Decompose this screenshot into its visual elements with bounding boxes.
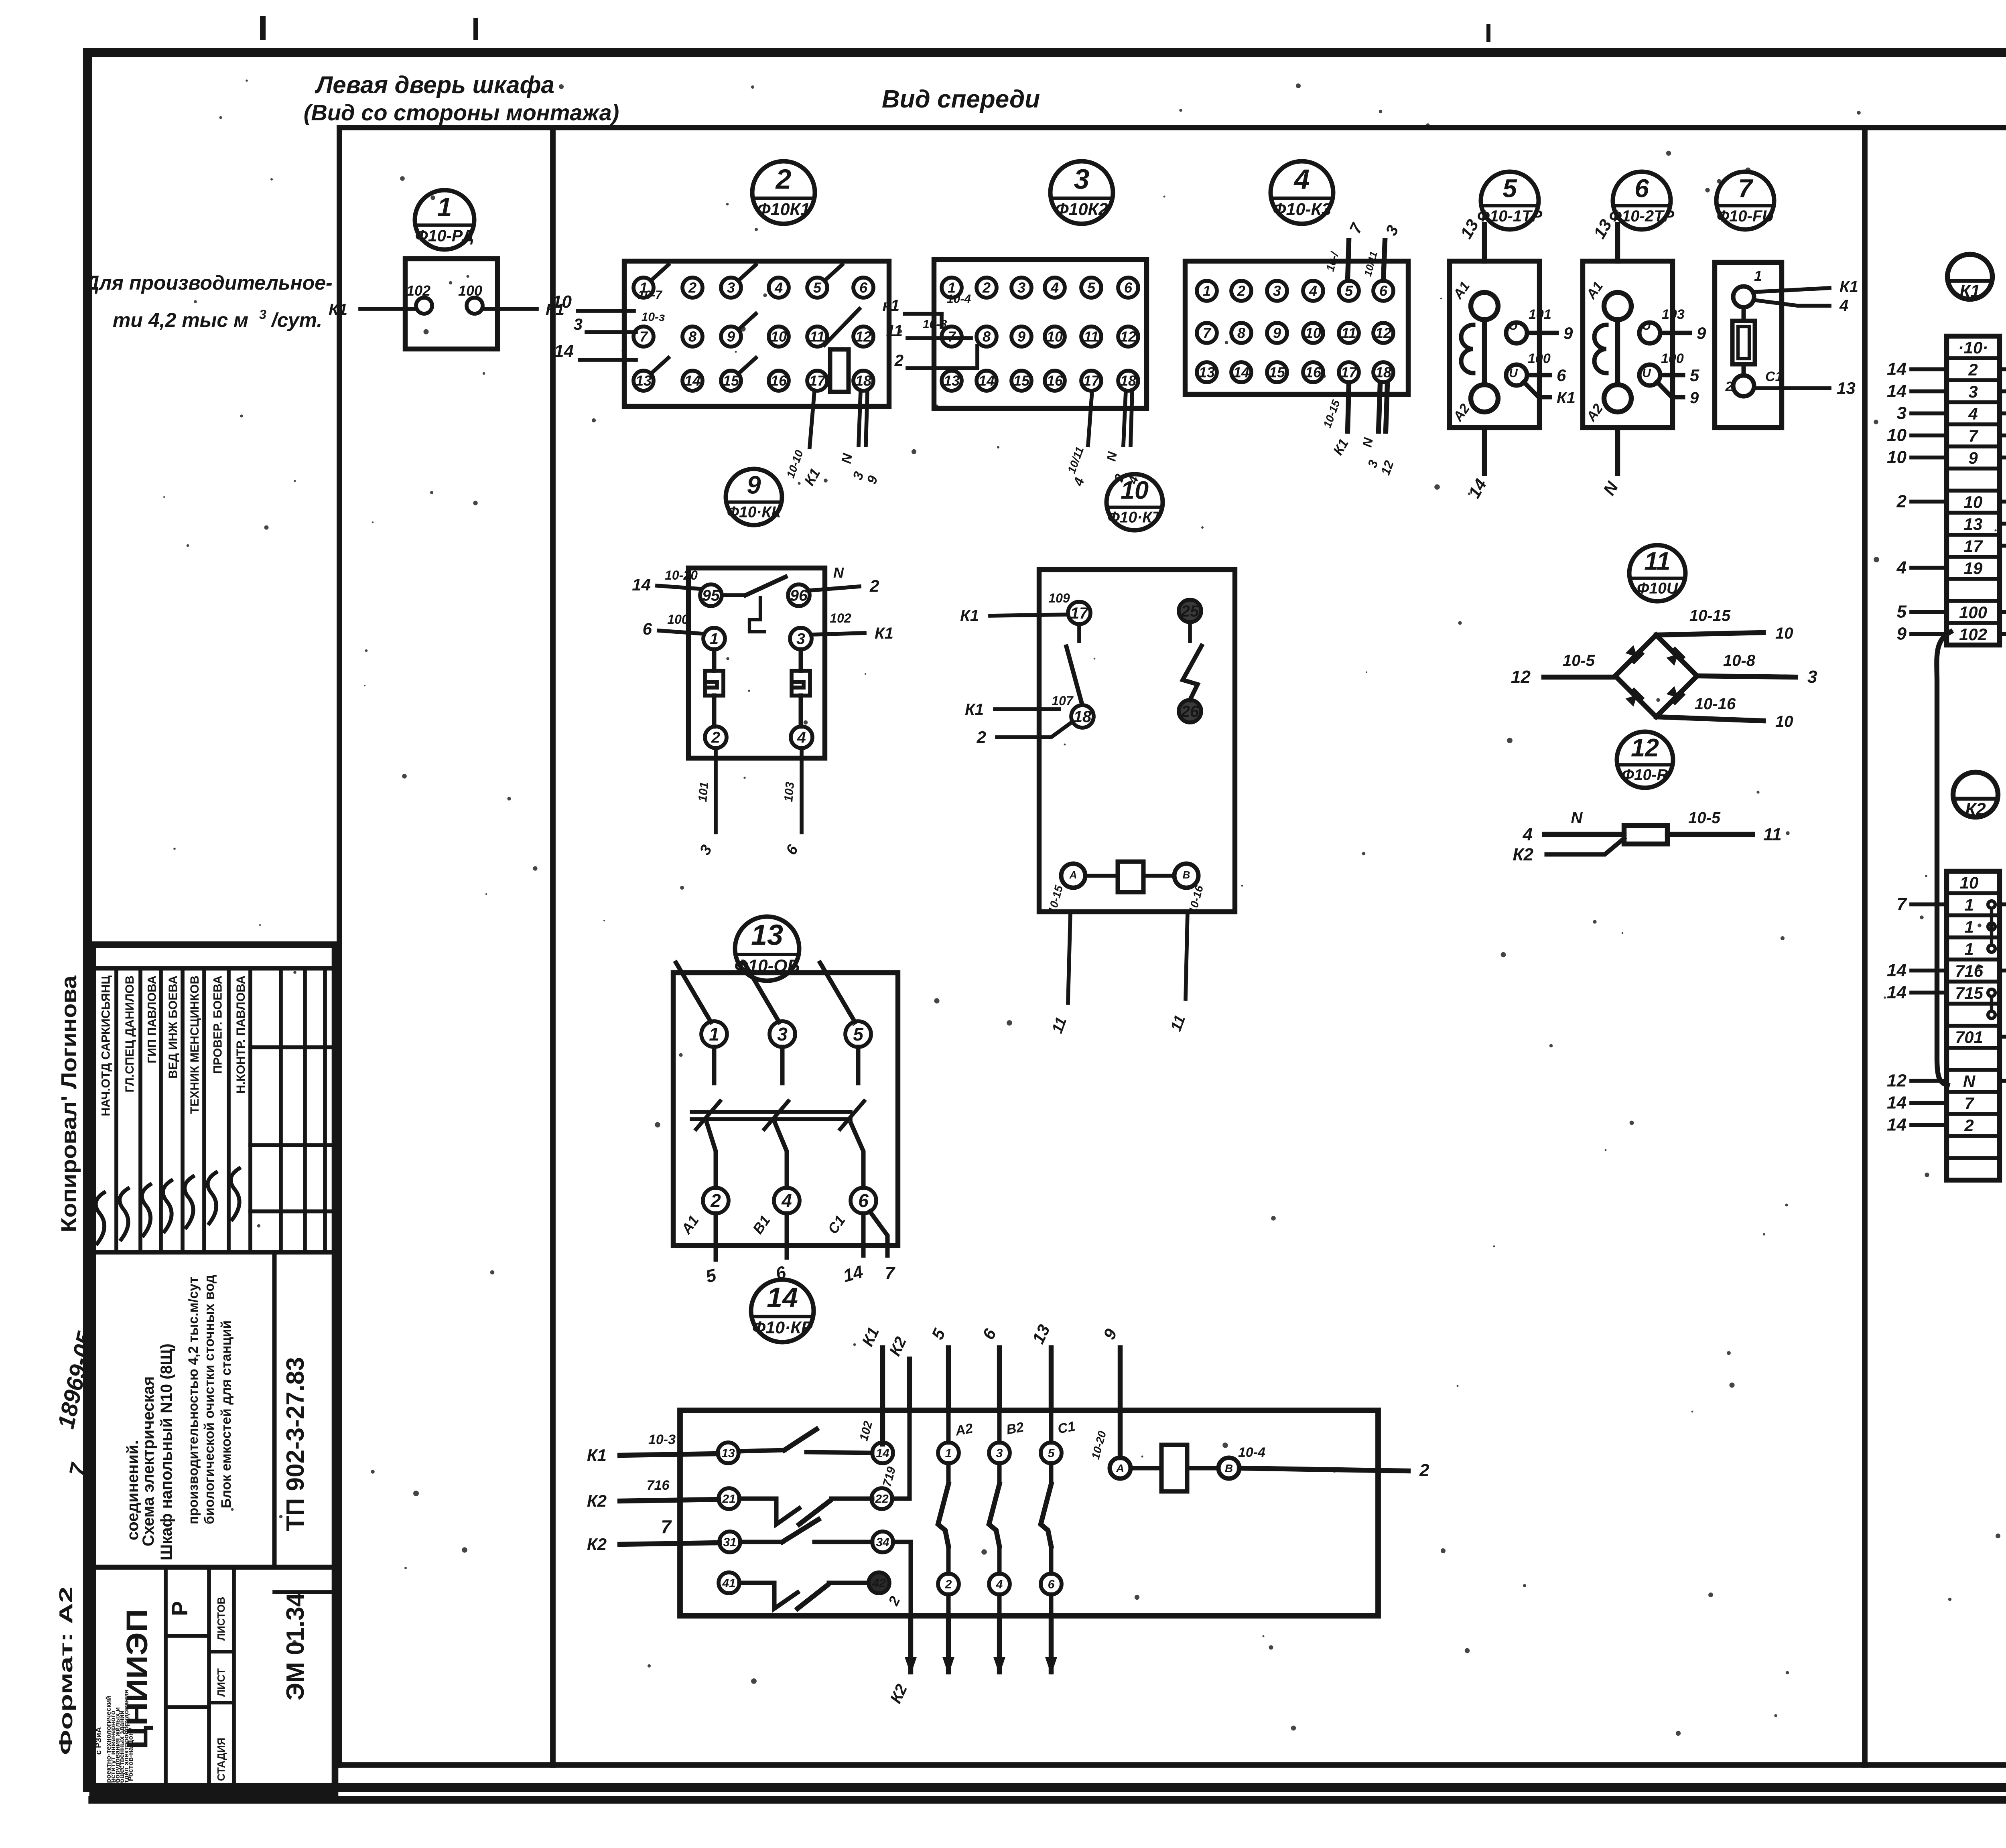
svg-text:ПРОВЕР. БОЕВА: ПРОВЕР. БОЕВА — [211, 976, 225, 1074]
svg-text:10: 10 — [1775, 713, 1793, 730]
svg-text:12: 12 — [1887, 1071, 1907, 1091]
svg-text:Ф10К1: Ф10К1 — [757, 200, 810, 219]
svg-text:5: 5 — [1502, 174, 1517, 203]
svg-text:Ф10·КК: Ф10·КК — [727, 503, 782, 521]
svg-text:11: 11 — [1341, 325, 1356, 341]
svg-text:7: 7 — [1964, 1094, 1974, 1113]
svg-text:9: 9 — [727, 329, 735, 345]
svg-text:(Вид со стороны монтажа): (Вид со стороны монтажа) — [304, 100, 619, 125]
svg-text:13: 13 — [1199, 364, 1215, 381]
svg-text:Ф10·КТ: Ф10·КТ — [1107, 509, 1163, 526]
svg-text:1: 1 — [437, 192, 452, 222]
svg-text:19: 19 — [1964, 559, 1983, 578]
svg-text:4: 4 — [1896, 558, 1907, 578]
svg-text:9: 9 — [747, 471, 761, 499]
svg-text:13: 13 — [944, 373, 960, 389]
svg-text:3: 3 — [796, 631, 805, 648]
svg-text:716: 716 — [1955, 962, 1984, 980]
svg-text:14: 14 — [1887, 1115, 1907, 1135]
svg-text:2: 2 — [1237, 283, 1245, 299]
svg-text:ЛИСТ: ЛИСТ — [215, 1668, 227, 1697]
svg-text:715: 715 — [1955, 984, 1984, 1002]
svg-text:716: 716 — [647, 1478, 670, 1493]
svg-text:1: 1 — [1964, 917, 1974, 936]
svg-text:701: 701 — [1955, 1028, 1983, 1047]
svg-text:ГИП ПАВЛОВА: ГИП ПАВЛОВА — [146, 976, 159, 1063]
svg-text:ЭМ 01.34: ЭМ 01.34 — [282, 1592, 309, 1700]
svg-text:К2: К2 — [1965, 799, 1986, 819]
svg-text:3: 3 — [259, 307, 266, 322]
svg-text:10: 10 — [1960, 873, 1979, 892]
svg-text:В2: В2 — [1005, 1420, 1025, 1438]
svg-text:12: 12 — [1120, 329, 1136, 345]
svg-text:17: 17 — [809, 373, 826, 389]
svg-text:6: 6 — [1048, 1578, 1055, 1591]
svg-text:10: 10 — [1964, 493, 1983, 511]
svg-text:16: 16 — [1047, 373, 1063, 389]
svg-text:9: 9 — [1273, 325, 1281, 341]
svg-text:9: 9 — [1697, 324, 1706, 343]
svg-text:ЛИСТОВ: ЛИСТОВ — [215, 1597, 227, 1641]
svg-text:10-5: 10-5 — [1563, 652, 1595, 669]
svg-text:А2: А2 — [954, 1421, 974, 1439]
svg-text:Левая дверь шкафа: Левая дверь шкафа — [315, 71, 554, 98]
svg-text:Ф10·КР: Ф10·КР — [752, 1318, 813, 1337]
svg-text:42: 42 — [872, 1577, 886, 1590]
svg-text:95: 95 — [702, 587, 720, 605]
svg-text:15: 15 — [1269, 364, 1285, 381]
svg-text:5: 5 — [1048, 1447, 1055, 1460]
svg-text:8: 8 — [983, 329, 991, 345]
svg-text:21: 21 — [722, 1493, 735, 1506]
svg-text:11: 11 — [1644, 548, 1670, 576]
svg-text:1: 1 — [1203, 283, 1211, 299]
svg-text:U: U — [1509, 367, 1518, 380]
svg-text:10-20: 10-20 — [665, 568, 698, 582]
svg-text:7: 7 — [885, 1263, 896, 1283]
svg-text:10-16: 10-16 — [1695, 695, 1736, 713]
svg-text:3: 3 — [1017, 280, 1025, 296]
svg-text:Копировал' Логинова: Копировал' Логинова — [57, 975, 81, 1232]
svg-text:г. Ростов-на-Дону: г. Ростов-на-Дону — [127, 1728, 134, 1787]
svg-text:·10·: ·10· — [1958, 338, 1988, 357]
svg-text:17: 17 — [1964, 537, 1983, 556]
svg-text:9: 9 — [1968, 448, 1978, 467]
svg-text:18: 18 — [855, 373, 871, 389]
svg-text:9: 9 — [1897, 624, 1907, 644]
svg-text:13: 13 — [751, 919, 783, 951]
svg-text:N: N — [1571, 809, 1583, 827]
svg-text:6: 6 — [859, 280, 868, 296]
svg-text:9: 9 — [1017, 329, 1025, 345]
svg-text:4: 4 — [797, 729, 806, 747]
svg-text:С1: С1 — [1056, 1419, 1076, 1437]
svg-text:К2: К2 — [587, 1535, 607, 1554]
svg-text:9: 9 — [1690, 389, 1699, 407]
svg-text:10: 10 — [1887, 448, 1907, 467]
svg-text:10: 10 — [1887, 426, 1907, 445]
svg-text:14: 14 — [632, 575, 651, 594]
svg-text:2: 2 — [688, 280, 696, 296]
svg-text:18: 18 — [1375, 364, 1391, 381]
svg-text:2: 2 — [982, 280, 991, 296]
svg-text:102: 102 — [1959, 625, 1987, 644]
svg-text:Н.КОНТР. ПАВЛОВА: Н.КОНТР. ПАВЛОВА — [234, 976, 248, 1093]
svg-text:Блок емкостей для станций: Блок емкостей для станций — [219, 1321, 234, 1508]
svg-text:14: 14 — [1233, 364, 1249, 381]
svg-text:Шкаф напольный N10 (8Щ): Шкаф напольный N10 (8Щ) — [158, 1343, 175, 1560]
svg-text:К2: К2 — [1513, 845, 1533, 864]
svg-text:U: U — [1642, 367, 1651, 380]
svg-text:3: 3 — [1968, 382, 1978, 401]
svg-text:14: 14 — [554, 341, 574, 361]
svg-text:14: 14 — [1887, 381, 1907, 401]
svg-text:14: 14 — [1887, 359, 1907, 379]
svg-text:2: 2 — [775, 164, 792, 195]
svg-text:5: 5 — [853, 1024, 864, 1045]
svg-text:Ф10-1ТР: Ф10-1ТР — [1477, 207, 1543, 225]
svg-text:Ф10К2: Ф10К2 — [1055, 200, 1108, 219]
svg-text:100: 100 — [667, 612, 689, 627]
svg-text:4: 4 — [1839, 297, 1848, 314]
svg-text:2: 2 — [945, 1578, 952, 1591]
svg-text:14: 14 — [979, 373, 995, 389]
svg-text:Для производительное-: Для производительное- — [83, 272, 332, 294]
svg-text:100: 100 — [1959, 603, 1987, 622]
svg-text:10: 10 — [1047, 329, 1063, 345]
svg-text:17: 17 — [1070, 605, 1089, 622]
svg-text:2: 2 — [894, 352, 904, 369]
svg-text:41: 41 — [722, 1577, 735, 1590]
svg-text:К1: К1 — [875, 625, 893, 642]
svg-text:2: 2 — [711, 729, 720, 747]
svg-text:К1: К1 — [965, 701, 984, 718]
svg-text:ТП 902-3-27.83: ТП 902-3-27.83 — [282, 1357, 309, 1531]
svg-text:12: 12 — [1631, 734, 1659, 762]
svg-text:1: 1 — [1964, 895, 1974, 914]
svg-text:К1: К1 — [587, 1446, 607, 1465]
svg-text:3: 3 — [1273, 283, 1281, 299]
svg-text:18: 18 — [1074, 708, 1092, 726]
svg-text:соединений.: соединений. — [124, 1440, 142, 1540]
svg-text:6: 6 — [643, 619, 652, 638]
svg-text:ТЕХНИК МЕНСЦИНКОВ: ТЕХНИК МЕНСЦИНКОВ — [188, 976, 201, 1114]
svg-text:10-4: 10-4 — [947, 292, 971, 306]
svg-text:К1: К1 — [1557, 389, 1576, 407]
svg-text:В: В — [1225, 1462, 1233, 1475]
svg-text:3: 3 — [1897, 404, 1907, 423]
svg-text:100: 100 — [458, 282, 482, 299]
svg-text:Схема электрическая: Схема электрическая — [140, 1376, 157, 1546]
svg-text:16: 16 — [1305, 364, 1322, 381]
svg-text:100: 100 — [1528, 351, 1551, 366]
svg-text:11: 11 — [1084, 329, 1098, 345]
svg-text:Ф10U: Ф10U — [1637, 580, 1678, 597]
svg-text:7: 7 — [1738, 174, 1754, 203]
svg-text:14: 14 — [1887, 961, 1907, 980]
svg-text:13: 13 — [1837, 379, 1856, 398]
svg-text:12: 12 — [1375, 325, 1391, 341]
svg-text:4: 4 — [996, 1578, 1003, 1591]
svg-text:100: 100 — [1661, 351, 1684, 366]
svg-text:7: 7 — [640, 329, 648, 345]
svg-text:4: 4 — [774, 280, 783, 296]
svg-text:12: 12 — [1511, 667, 1531, 687]
svg-text:СТАДИЯ: СТАДИЯ — [215, 1738, 227, 1781]
svg-text:/сут.: /сут. — [271, 309, 323, 331]
svg-text:НАЧ.ОТД САРКИСЬЯНЦ: НАЧ.ОТД САРКИСЬЯНЦ — [99, 976, 113, 1116]
svg-text:96: 96 — [790, 587, 808, 605]
svg-text:А: А — [1116, 1462, 1124, 1475]
svg-text:3: 3 — [1074, 164, 1090, 195]
svg-text:102: 102 — [830, 611, 851, 625]
svg-text:101: 101 — [696, 781, 711, 803]
svg-text:Р: Р — [167, 1601, 192, 1616]
svg-text:2: 2 — [977, 728, 986, 747]
svg-text:N: N — [833, 564, 844, 581]
svg-text:8: 8 — [1237, 325, 1245, 341]
svg-text:Ф10-FU: Ф10-FU — [1717, 207, 1774, 225]
svg-text:25: 25 — [1181, 602, 1199, 620]
svg-text:14: 14 — [767, 1282, 798, 1313]
svg-text:U: U — [1642, 319, 1651, 333]
svg-text:1: 1 — [945, 1447, 952, 1460]
svg-text:14: 14 — [1887, 983, 1907, 1002]
svg-text:биологической очистки сточных: биологической очистки сточных вод — [202, 1275, 217, 1524]
svg-text:6: 6 — [1124, 280, 1133, 296]
svg-text:13: 13 — [1964, 515, 1983, 534]
svg-text:5: 5 — [1690, 366, 1699, 385]
svg-text:10: 10 — [1305, 325, 1321, 341]
svg-text:В: В — [1183, 869, 1190, 881]
svg-text:4: 4 — [781, 1190, 792, 1211]
svg-text:Ф10-РД: Ф10-РД — [415, 226, 474, 245]
svg-text:10: 10 — [552, 292, 572, 312]
svg-text:3: 3 — [996, 1447, 1003, 1460]
svg-text:6: 6 — [1634, 174, 1649, 203]
svg-text:производительностью 4,2 тыс.м/: производительностью 4,2 тыс.м/сут — [186, 1277, 201, 1524]
svg-text:Формат: А2: Формат: А2 — [55, 1586, 76, 1755]
svg-text:8: 8 — [688, 329, 696, 345]
svg-text:12: 12 — [855, 329, 871, 345]
svg-text:N: N — [1963, 1072, 1976, 1091]
svg-text:18: 18 — [1120, 373, 1136, 389]
svg-text:7: 7 — [1897, 895, 1908, 914]
svg-text:10-з: 10-з — [642, 310, 665, 324]
svg-text:101: 101 — [1529, 307, 1551, 322]
svg-text:10-8: 10-8 — [1723, 652, 1756, 669]
svg-text:1: 1 — [1964, 939, 1974, 958]
svg-text:26: 26 — [1181, 703, 1199, 720]
svg-text:U: U — [1509, 319, 1518, 333]
svg-text:к1: к1 — [882, 297, 899, 314]
svg-text:13: 13 — [721, 1447, 735, 1460]
svg-text:16: 16 — [771, 373, 787, 389]
svg-text:К2: К2 — [587, 1491, 607, 1510]
svg-text:17: 17 — [1083, 373, 1100, 389]
svg-text:1: 1 — [1754, 268, 1762, 284]
svg-text:Вид спереди: Вид спереди — [882, 85, 1040, 113]
svg-text:2: 2 — [1968, 360, 1978, 379]
svg-text:2: 2 — [710, 1190, 721, 1211]
svg-text:103: 103 — [1662, 307, 1685, 322]
svg-text:7: 7 — [1968, 426, 1978, 445]
svg-text:10: 10 — [1775, 625, 1793, 642]
svg-text:с РЗиА: с РЗиА — [94, 1727, 103, 1755]
svg-text:10-15: 10-15 — [1689, 607, 1731, 625]
svg-text:7: 7 — [661, 1516, 672, 1537]
svg-text:5: 5 — [1345, 283, 1353, 299]
svg-text:ти 4,2 тыс м: ти 4,2 тыс м — [113, 309, 248, 331]
svg-text:34: 34 — [876, 1536, 889, 1549]
svg-text:14: 14 — [1887, 1093, 1907, 1113]
svg-text:К1: К1 — [960, 607, 979, 625]
svg-text:14: 14 — [876, 1447, 889, 1460]
svg-text:6: 6 — [1379, 283, 1388, 299]
svg-text:14: 14 — [684, 373, 700, 389]
svg-text:15: 15 — [1013, 373, 1030, 389]
svg-text:К1: К1 — [329, 301, 347, 318]
svg-text:4: 4 — [1309, 283, 1317, 299]
svg-text:2: 2 — [1896, 492, 1907, 511]
svg-text:К1: К1 — [1840, 278, 1858, 296]
svg-text:1: 1 — [709, 1024, 719, 1045]
svg-text:102: 102 — [406, 282, 430, 299]
svg-text:2: 2 — [1725, 379, 1733, 394]
svg-text:4: 4 — [1968, 404, 1978, 423]
svg-text:31: 31 — [723, 1536, 736, 1549]
svg-text:3: 3 — [1807, 667, 1817, 687]
svg-text:109: 109 — [1048, 591, 1070, 605]
svg-text:7: 7 — [1203, 325, 1212, 341]
svg-text:10: 10 — [771, 329, 787, 345]
svg-text:3: 3 — [574, 316, 583, 333]
svg-text:11: 11 — [810, 329, 824, 345]
svg-text:10-4: 10-4 — [1238, 1445, 1265, 1460]
svg-text:4: 4 — [1050, 280, 1059, 296]
svg-text:5: 5 — [1087, 280, 1096, 296]
svg-text:11: 11 — [1763, 825, 1782, 844]
svg-text:107: 107 — [1052, 694, 1074, 708]
svg-text:10: 10 — [1121, 477, 1149, 505]
svg-text:1: 1 — [710, 631, 719, 648]
svg-text:ВЕД ИНЖ БОЕВА: ВЕД ИНЖ БОЕВА — [166, 976, 180, 1079]
svg-text:2: 2 — [1419, 1461, 1429, 1480]
svg-text:6: 6 — [1557, 366, 1566, 385]
svg-text:10-7: 10-7 — [638, 288, 662, 302]
svg-text:9: 9 — [1563, 324, 1573, 343]
svg-text:4: 4 — [1293, 164, 1310, 195]
svg-text:10-3: 10-3 — [648, 1432, 676, 1447]
svg-text:22: 22 — [875, 1493, 889, 1506]
svg-text:5: 5 — [1897, 602, 1907, 622]
svg-text:К1: К1 — [1959, 281, 1980, 301]
svg-text:103: 103 — [782, 781, 797, 802]
svg-text:6: 6 — [858, 1190, 869, 1211]
svg-text:3: 3 — [727, 280, 735, 296]
svg-text:17: 17 — [1341, 364, 1358, 381]
svg-text:3: 3 — [777, 1024, 788, 1045]
svg-text:10-5: 10-5 — [1688, 809, 1721, 827]
svg-text:2: 2 — [869, 576, 879, 595]
svg-text:Ф10-R: Ф10-R — [1622, 766, 1668, 783]
svg-text:А: А — [1069, 869, 1077, 881]
svg-text:ГЛ.СПЕЦ ДАНИЛОВ: ГЛ.СПЕЦ ДАНИЛОВ — [123, 976, 136, 1092]
svg-text:Ф10-К3: Ф10-К3 — [1273, 200, 1331, 219]
svg-text:С1: С1 — [1765, 369, 1783, 384]
svg-text:2: 2 — [1964, 1116, 1974, 1135]
svg-text:5: 5 — [813, 280, 822, 296]
